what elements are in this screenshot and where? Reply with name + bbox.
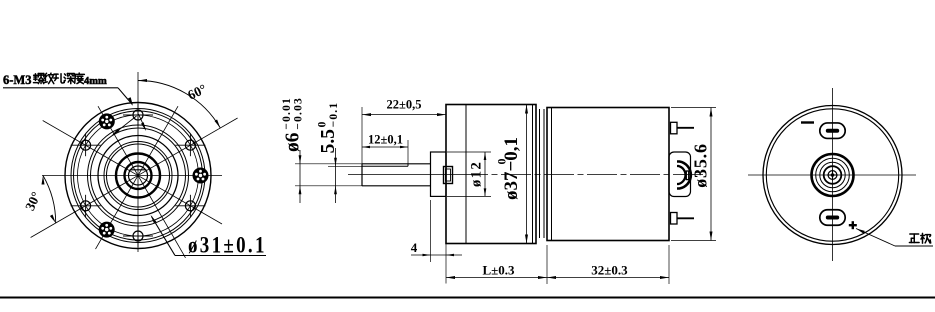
svg-text:4: 4 — [411, 240, 418, 255]
svg-text:0: 0 — [495, 159, 509, 165]
svg-text:ø37−0,1: ø37−0,1 — [501, 137, 522, 200]
svg-text:0: 0 — [317, 120, 329, 127]
svg-text:60°: 60° — [185, 81, 208, 103]
svg-text:ø35.6: ø35.6 — [691, 143, 711, 188]
svg-text:ø6: ø6 — [283, 132, 304, 152]
svg-text:L±0.3: L±0.3 — [482, 263, 515, 278]
svg-text:6-M3: 6-M3 — [3, 73, 31, 87]
svg-text:22±0,5: 22±0,5 — [387, 98, 422, 112]
svg-text:32±0.3: 32±0.3 — [591, 263, 628, 278]
svg-text:ø31±0.1: ø31±0.1 — [188, 232, 267, 258]
svg-text:4mm: 4mm — [84, 76, 107, 87]
svg-text:ø12: ø12 — [469, 161, 485, 187]
svg-text:30°: 30° — [22, 189, 44, 212]
svg-text:−0.01: −0.01 — [281, 97, 293, 130]
svg-text:12±0,1: 12±0,1 — [368, 133, 403, 147]
svg-text:5.5: 5.5 — [318, 129, 339, 154]
svg-text:−0.1: −0.1 — [328, 102, 340, 128]
svg-text:−0.03: −0.03 — [292, 97, 304, 130]
